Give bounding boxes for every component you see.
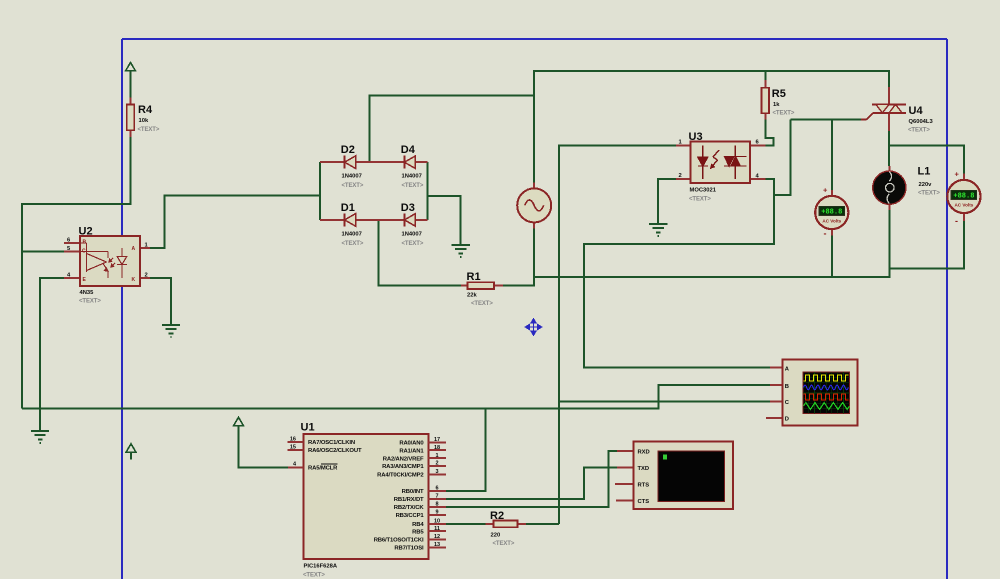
svg-text:9: 9 [435, 510, 438, 516]
wire: top rail from AC source to U4 [534, 71, 889, 183]
svg-text:RA3/AN3/CMP1: RA3/AN3/CMP1 [382, 464, 424, 470]
svg-text:<TEXT>: <TEXT> [342, 241, 364, 247]
wire: bridge right vertical [427, 162, 429, 220]
wire: long bottom rail to scope B riser [22, 385, 770, 409]
wire: node to U2 pin5 [22, 251, 64, 253]
svg-text:U1: U1 [301, 422, 315, 434]
ground (U2 emitter) [31, 431, 49, 443]
wire: gate rail link down to U3 pin4 node [774, 120, 791, 196]
resistor R4 [127, 98, 160, 138]
svg-text:RTS: RTS [638, 483, 650, 489]
svg-text:<TEXT>: <TEXT> [402, 183, 424, 189]
wire: U3 pin4 to scope A [584, 179, 774, 367]
wire: U2 pin2 cathode to ground [150, 278, 171, 325]
diode D2 [320, 144, 369, 189]
wire: U4 gate rail [791, 119, 862, 121]
svg-text:220: 220 [491, 533, 501, 539]
ground (bridge) [452, 245, 470, 257]
svg-text:R1: R1 [467, 271, 481, 283]
svg-text:+: + [955, 170, 960, 179]
svg-text:6: 6 [435, 486, 438, 492]
svg-text:10: 10 [434, 519, 440, 525]
lamp L1 labels [918, 166, 941, 197]
wire: U3 pin1 from vertical node [559, 146, 676, 525]
diode D3 [379, 202, 428, 247]
svg-text:R2: R2 [490, 510, 504, 522]
svg-text:-: - [955, 216, 958, 226]
svg-text:RA5/MCLR: RA5/MCLR [308, 466, 338, 472]
svg-text:<TEXT>: <TEXT> [342, 183, 364, 189]
microcontroller U1 PIC16F628A [288, 422, 446, 579]
svg-text:A: A [132, 246, 136, 252]
svg-text:RA0/AN0: RA0/AN0 [399, 441, 424, 447]
wire: U4 bottom to lamp top [888, 131, 890, 167]
svg-text:TXD: TXD [638, 466, 650, 472]
virtual terminal [615, 441, 733, 509]
svg-text:<TEXT>: <TEXT> [402, 241, 424, 247]
svg-text:U4: U4 [909, 105, 924, 117]
svg-text:L1: L1 [918, 166, 931, 178]
svg-text:K: K [132, 277, 136, 283]
svg-text:+88.8: +88.8 [953, 193, 974, 201]
svg-text:RA4/T0CKI/CMP2: RA4/T0CKI/CMP2 [377, 473, 424, 479]
svg-text:2: 2 [435, 461, 438, 467]
origin cursor marker [526, 319, 542, 335]
svg-text:D: D [785, 417, 789, 423]
resistor R2 [486, 510, 527, 547]
sheet border frame [122, 39, 947, 579]
wire: drop to PIC pin6 RB0/INT [446, 409, 486, 492]
wire: voltmeter2 bottom joining lamp branch [890, 221, 965, 269]
svg-text:MOC3021: MOC3021 [690, 188, 717, 194]
svg-text:RA6/OSC2/CLKOUT: RA6/OSC2/CLKOUT [308, 448, 362, 454]
svg-text:12: 12 [434, 534, 440, 540]
power terminal arrow (isolated, lower left) [126, 444, 136, 460]
svg-text:RA7/OSC1/CLKIN: RA7/OSC1/CLKIN [308, 440, 355, 446]
svg-text:RB1/RX/DT: RB1/RX/DT [394, 497, 424, 503]
svg-text:RB4: RB4 [412, 522, 424, 528]
svg-text:11: 11 [434, 526, 440, 532]
wire: voltmeter1 bottom to rail [831, 236, 833, 278]
svg-text:+88.8: +88.8 [821, 209, 842, 217]
svg-text:<TEXT>: <TEXT> [79, 299, 101, 305]
AC source (alternator) [517, 183, 551, 229]
wire: R1 right to AC bottom vertical [503, 229, 534, 286]
svg-text:R4: R4 [138, 104, 153, 116]
svg-text:1N4007: 1N4007 [402, 174, 422, 180]
wire: bridge left vertical [319, 162, 321, 220]
svg-text:U3: U3 [689, 131, 703, 143]
svg-text:2: 2 [145, 273, 148, 279]
svg-text:2: 2 [679, 173, 682, 179]
ground (U3 pin2) [649, 224, 667, 236]
svg-text:CTS: CTS [638, 499, 650, 505]
svg-text:RXD: RXD [638, 450, 650, 456]
svg-text:16: 16 [290, 437, 296, 443]
svg-text:10k: 10k [139, 118, 149, 124]
wire: voltmeter1 top to gate rail [831, 120, 833, 191]
svg-text:R5: R5 [772, 88, 786, 100]
wire: PIC pin10 to R2 [446, 523, 486, 525]
svg-text:RB7/T1OSI: RB7/T1OSI [394, 546, 424, 552]
triac U4 [861, 87, 933, 134]
svg-text:<TEXT>: <TEXT> [471, 301, 493, 307]
diode D1 [320, 202, 378, 247]
wire: power arrow to R4 top [130, 71, 132, 99]
wire: bridge right to ground [428, 196, 461, 245]
svg-text:18: 18 [434, 445, 440, 451]
wire: bridge top junction up and right to AC top vertical [369, 96, 534, 163]
svg-text:<TEXT>: <TEXT> [689, 197, 711, 203]
svg-text:7: 7 [435, 494, 438, 500]
svg-text:B: B [785, 384, 789, 390]
svg-text:4N35: 4N35 [80, 290, 95, 296]
optocoupler U2 4N35 [64, 226, 150, 305]
svg-text:RB6/T1OSO/T1CKI: RB6/T1OSO/T1CKI [374, 538, 424, 544]
svg-text:D4: D4 [401, 144, 416, 156]
svg-text:RA1/AN1: RA1/AN1 [399, 448, 424, 454]
wire: MCLR arrow to PIC pin4 [239, 426, 289, 468]
svg-text:B: B [83, 240, 87, 246]
svg-text:<TEXT>: <TEXT> [138, 127, 160, 133]
wire: U3 pin2 to ground [658, 179, 676, 224]
svg-text:AC Volts: AC Volts [954, 202, 973, 207]
svg-text:C: C [82, 249, 86, 255]
wire: branch to voltmeter2 top [889, 146, 964, 174]
svg-text:RA2/AN2/VREF: RA2/AN2/VREF [383, 456, 424, 462]
svg-text:17: 17 [434, 437, 440, 443]
optocoupler U3 MOC3021 [676, 131, 766, 203]
svg-text:1N4007: 1N4007 [342, 231, 362, 237]
svg-text:1k: 1k [773, 102, 780, 108]
diode D4 [369, 144, 427, 189]
svg-text:13: 13 [434, 542, 440, 548]
wire: R5 top stub to top rail [764, 71, 766, 81]
oscilloscope [766, 360, 857, 426]
svg-text:8: 8 [435, 502, 438, 508]
svg-text:U2: U2 [79, 226, 93, 238]
wire: bottom AC rail to lamp [534, 210, 889, 277]
svg-text:D3: D3 [401, 202, 415, 214]
svg-text:-: - [824, 229, 827, 239]
AC voltmeter 1 [815, 186, 848, 239]
svg-text:RB5: RB5 [412, 529, 424, 535]
svg-text:1N4007: 1N4007 [402, 231, 422, 237]
svg-text:D2: D2 [341, 144, 355, 156]
AC voltmeter 2 [947, 170, 980, 227]
wire: R4 bottom down to corner, left to x22, down to bottom rail [22, 137, 131, 409]
svg-text:1: 1 [435, 453, 438, 459]
svg-text:+: + [823, 186, 828, 195]
svg-text:<TEXT>: <TEXT> [908, 128, 930, 134]
svg-text:<TEXT>: <TEXT> [918, 191, 940, 197]
svg-text:15: 15 [290, 445, 296, 451]
wire: U2 pin4 emitter to ground [40, 278, 64, 431]
svg-text:3: 3 [435, 469, 438, 475]
wire: R2 right to vertical node [526, 523, 559, 525]
svg-text:PIC16F628A: PIC16F628A [304, 564, 338, 570]
svg-text:RB2/TX/CK: RB2/TX/CK [394, 505, 425, 511]
svg-text:220v: 220v [919, 182, 933, 188]
svg-text:D1: D1 [341, 202, 355, 214]
wire: scope C from vertical node [559, 400, 770, 402]
wire: R5 bottom jog to U3 pin6 [765, 119, 773, 146]
svg-text:<TEXT>: <TEXT> [303, 573, 325, 579]
ground (U2 cathode) [162, 325, 180, 337]
svg-text:1N4007: 1N4007 [342, 174, 362, 180]
wire: PIC pin8 to terminal RXD [446, 451, 617, 507]
power terminal arrow (MCLR) [234, 417, 244, 425]
svg-text:RB3/CCP1: RB3/CCP1 [396, 513, 425, 519]
resistor R1 [461, 271, 503, 307]
svg-text:22k: 22k [467, 293, 477, 299]
power terminal arrow (top, feeds R4) [126, 63, 136, 71]
wire: bridge bottom junction down to R1 left [379, 220, 462, 286]
lamp L1 [873, 166, 906, 210]
resistor R5 [762, 80, 795, 119]
wire: PIC pin7 to terminal TXD [446, 468, 617, 500]
svg-text:Q6004L3: Q6004L3 [909, 119, 934, 125]
wire: U2 pin1 anode up to bridge left [150, 195, 320, 248]
svg-text:RB0/INT: RB0/INT [402, 489, 424, 495]
svg-text:<TEXT>: <TEXT> [493, 541, 515, 547]
svg-text:<TEXT>: <TEXT> [773, 111, 795, 117]
svg-text:AC Volts: AC Volts [822, 218, 841, 223]
